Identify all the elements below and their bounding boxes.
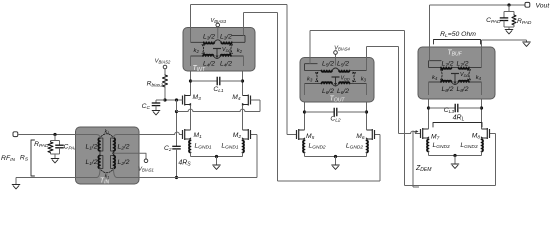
svg-text:L6/2: L6/2 <box>337 88 349 96</box>
svg-text:L4/2: L4/2 <box>220 61 232 69</box>
svg-text:VBIAS2: VBIAS2 <box>155 59 171 65</box>
svg-text:L1/2: L1/2 <box>86 159 98 167</box>
svg-text:k4: k4 <box>476 75 482 81</box>
svg-text:k1: k1 <box>105 129 110 135</box>
svg-text:k3: k3 <box>361 77 367 83</box>
svg-text:L8/2: L8/2 <box>457 86 469 94</box>
svg-text:L3/2: L3/2 <box>203 34 215 42</box>
svg-text:TIN: TIN <box>100 178 110 186</box>
svg-text:Vout: Vout <box>536 3 550 10</box>
svg-text:VDD: VDD <box>341 76 350 82</box>
svg-text:VBIAS1: VBIAS1 <box>138 167 154 173</box>
svg-text:L7/2: L7/2 <box>457 61 469 69</box>
svg-text:L1/2: L1/2 <box>86 144 98 152</box>
svg-text:TOUT: TOUT <box>330 96 346 104</box>
svg-text:k2: k2 <box>237 48 243 54</box>
svg-text:VDD: VDD <box>222 47 231 53</box>
svg-text:TBUF: TBUF <box>447 50 462 58</box>
svg-text:VBIAS4: VBIAS4 <box>334 46 350 52</box>
svg-text:L5/2: L5/2 <box>322 61 334 69</box>
svg-text:ZDEM: ZDEM <box>415 165 432 173</box>
svg-text:TINT: TINT <box>193 65 206 73</box>
svg-text:4RS: 4RS <box>178 160 191 168</box>
svg-text:L3/2: L3/2 <box>220 34 232 42</box>
svg-text:k2: k2 <box>194 48 200 54</box>
svg-text:VDD: VDD <box>460 72 469 78</box>
svg-text:k4: k4 <box>432 75 438 81</box>
svg-text:k3: k3 <box>307 77 313 83</box>
svg-text:L2/2: L2/2 <box>118 159 130 167</box>
svg-text:VBIAS3: VBIAS3 <box>210 18 226 24</box>
svg-text:L7/2: L7/2 <box>442 61 454 69</box>
svg-text:L5/2: L5/2 <box>337 61 349 69</box>
svg-text:L8/2: L8/2 <box>442 86 454 94</box>
svg-text:L2/2: L2/2 <box>118 144 130 152</box>
svg-text:4RL: 4RL <box>453 115 465 123</box>
